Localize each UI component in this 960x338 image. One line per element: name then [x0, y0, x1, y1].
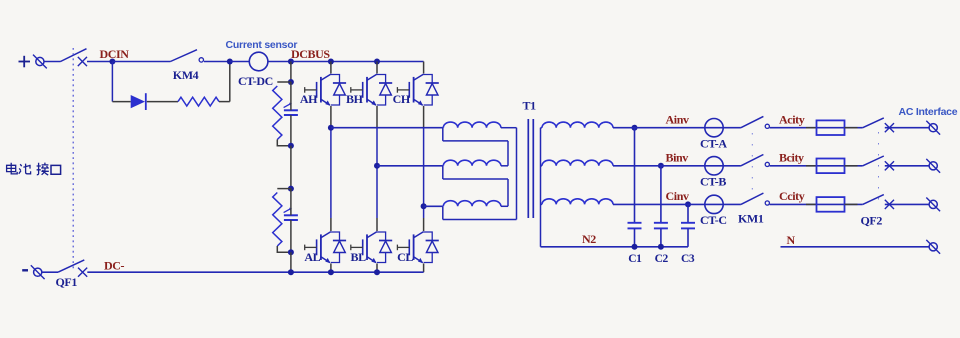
wire (primary link winding A to return3) — [516, 128, 518, 220]
wire — [330, 264, 332, 273]
wire — [290, 252, 292, 272]
node DCIN junction — [109, 59, 115, 65]
filter capacitor C1 — [628, 223, 642, 229]
wire (C3 lead) — [687, 204, 689, 222]
wire — [290, 82, 292, 110]
bus capacitor 2 — [284, 208, 298, 220]
wire — [423, 264, 425, 273]
svg-text:AH: AH — [300, 92, 318, 106]
svg-text:C3: C3 — [681, 253, 695, 265]
precharge branch wire (left drop) — [111, 62, 113, 102]
wire — [423, 106, 425, 128]
svg-text:AC Interface: AC Interface — [899, 106, 958, 118]
label 电池接口 (battery interface, hand-drawn glyphs) — [7, 163, 61, 175]
wire (phase C to primary) — [424, 205, 443, 207]
IGBT CL — [397, 232, 438, 264]
wire (phase B to primary) — [377, 165, 443, 167]
bus capacitor 1 — [284, 103, 298, 115]
contactor KM1 pole A fixed contact — [765, 124, 769, 128]
wire — [885, 127, 929, 129]
IGBT BH — [351, 74, 392, 106]
wire — [204, 61, 230, 63]
wire (C2 lead) — [660, 166, 662, 223]
wire — [277, 246, 291, 252]
svg-text:T1: T1 — [523, 99, 537, 113]
fuse FB — [817, 159, 845, 174]
svg-text:CT-DC: CT-DC — [238, 74, 273, 88]
svg-text:Current sensor: Current sensor — [226, 39, 298, 51]
QF2 contact X mark C — [885, 200, 894, 209]
contactor KM1 pole A blade — [741, 116, 764, 127]
wire — [268, 61, 291, 63]
wire — [277, 188, 291, 190]
wire (dark at fuse) — [806, 203, 817, 205]
current sensor CT-DC — [249, 52, 268, 71]
wire (DC- rail) — [87, 271, 423, 273]
wire (C1 lead) — [634, 128, 636, 223]
svg-text:C2: C2 — [655, 253, 669, 265]
wire (N2 line) — [541, 246, 689, 248]
svg-text:Ainv: Ainv — [666, 112, 689, 126]
svg-text:Binv: Binv — [666, 150, 689, 164]
transformer T1 secondary winding B — [541, 160, 614, 166]
wire (N line) — [781, 246, 929, 248]
svg-text:CL: CL — [397, 250, 413, 264]
node N2-C2 — [658, 244, 664, 250]
wire — [290, 115, 292, 146]
svg-text:CH: CH — [393, 92, 411, 106]
terminal DC- — [31, 265, 45, 279]
terminal A (AC interface) — [926, 121, 940, 135]
wire — [330, 62, 332, 74]
svg-text:Bcity: Bcity — [779, 150, 804, 164]
wire — [423, 62, 425, 74]
node phase output B — [374, 163, 380, 169]
filter capacitor C3 — [681, 223, 695, 229]
node DCBUS — [288, 59, 294, 65]
node N2-C1 — [632, 244, 638, 250]
wire (phase A to primary) — [331, 127, 443, 129]
node cap bank bottom — [288, 249, 294, 255]
wire (dark at fuse out) — [845, 165, 858, 167]
node cap bank top — [288, 79, 294, 85]
wire (secondary C to KM1) — [613, 203, 741, 205]
precharge diode — [131, 93, 146, 110]
svg-text:Ccity: Ccity — [779, 189, 805, 203]
wire — [230, 61, 250, 63]
svg-text:DCIN: DCIN — [100, 47, 130, 61]
wire — [112, 101, 130, 103]
contactor KM1 pole B fixed contact — [765, 162, 769, 166]
wire (dark at fuse) — [806, 165, 817, 167]
wire (dark at fuse) — [806, 127, 817, 129]
contactor KM1 pole C blade — [741, 193, 764, 204]
wire — [42, 271, 58, 273]
precharge resistor — [178, 97, 219, 106]
svg-text:Cinv: Cinv — [666, 189, 689, 203]
node AH collector on DC+ rail — [328, 59, 334, 65]
QF1 contact X mark (top) — [78, 57, 87, 66]
svg-text:QF1: QF1 — [56, 275, 78, 289]
wire — [376, 218, 378, 231]
wire — [290, 220, 292, 252]
node DC- at cap bank — [288, 269, 294, 275]
fuse FC — [817, 197, 845, 212]
wire — [277, 81, 291, 83]
wire — [634, 228, 636, 246]
battery positive terminal mark — [19, 56, 31, 68]
breaker QF2 pole C blade — [863, 195, 884, 205]
wire — [376, 62, 378, 74]
fuse FA — [817, 120, 845, 135]
terminal N (AC interface) — [926, 240, 940, 254]
transformer T1 primary winding B — [443, 160, 508, 179]
breaker QF1 pole 2 blade — [58, 260, 84, 272]
transformer T1 secondary winding C — [541, 199, 614, 205]
contactor KM1 pole B blade — [741, 155, 764, 166]
wire — [44, 61, 61, 63]
IGBT AH — [305, 74, 346, 106]
node cap bank mid1 — [288, 143, 294, 149]
node C2 tap — [658, 163, 664, 169]
wire — [770, 127, 863, 129]
wire — [770, 165, 863, 167]
svg-text:CT-C: CT-C — [700, 213, 727, 227]
svg-text:BH: BH — [346, 92, 364, 106]
IGBT AL — [305, 232, 346, 264]
wire (secondary star/neutral riser) — [540, 128, 542, 247]
svg-text:N2: N2 — [582, 232, 596, 246]
svg-text:BL: BL — [351, 250, 367, 264]
breaker QF2 pole B blade — [863, 156, 884, 166]
wire (dark at fuse out) — [845, 127, 858, 129]
wire — [687, 228, 689, 246]
node C1 tap — [632, 125, 638, 131]
svg-text:QF2: QF2 — [861, 213, 883, 227]
wire (dark at fuse out) — [845, 203, 858, 205]
battery negative terminal mark — [22, 269, 28, 271]
wire — [290, 146, 292, 189]
node phase output C — [421, 203, 427, 209]
current sensor CT-A — [705, 119, 723, 137]
wire — [290, 189, 292, 216]
svg-text:CT-A: CT-A — [700, 136, 727, 150]
wire — [112, 61, 170, 63]
terminal DC+ — [33, 55, 47, 69]
wire — [770, 203, 863, 205]
current sensor CT-C — [705, 195, 723, 213]
wire — [219, 101, 230, 103]
wire (secondary B to KM1) — [613, 165, 741, 167]
wire — [660, 228, 662, 246]
filter capacitor C2 — [654, 223, 668, 229]
svg-text:DCBUS: DCBUS — [291, 47, 330, 61]
current sensor CT-B — [705, 157, 723, 175]
wire — [87, 61, 112, 63]
node C3 tap — [685, 201, 691, 207]
wire — [147, 101, 178, 103]
wire (secondary A to KM1) — [613, 127, 741, 129]
svg-text:C1: C1 — [628, 253, 642, 265]
wire (primary link return1 to winding B) — [507, 141, 509, 166]
bleed resistor 2 — [273, 193, 282, 247]
wire — [423, 218, 425, 231]
wire (cap bank riser) — [290, 62, 292, 83]
transformer T1 primary winding C — [443, 201, 517, 220]
wire (leg mid) — [376, 128, 378, 218]
svg-text:KM4: KM4 — [173, 68, 199, 82]
QF1 contact X mark (bottom) — [78, 268, 87, 277]
contactor KM4 fixed contact — [199, 58, 203, 62]
terminal B (AC interface) — [926, 159, 940, 173]
wire (precharge return riser) — [229, 62, 231, 102]
wire — [885, 165, 929, 167]
node BH collector on DC+ rail — [374, 59, 380, 65]
transformer T1 secondary winding A — [541, 122, 614, 128]
breaker QF1 pole 1 blade — [61, 49, 87, 62]
breaker QF2 gang dashed linkage — [878, 132, 880, 200]
svg-text:DC-: DC- — [104, 258, 125, 272]
svg-text:CT-B: CT-B — [700, 174, 726, 188]
wire (leg mid) — [423, 128, 425, 218]
breaker QF2 pole A blade — [863, 118, 884, 128]
transformer T1 core — [528, 119, 533, 218]
svg-text:Acity: Acity — [779, 112, 805, 126]
contactor KM1 gang dashed linkage — [751, 133, 753, 199]
node phase output A — [328, 125, 334, 131]
QF2 contact X mark B — [885, 161, 894, 170]
wire — [277, 140, 291, 146]
transformer T1 primary winding A — [443, 122, 517, 141]
node DC- at leg B — [374, 269, 380, 275]
node precharge rejoin — [227, 59, 233, 65]
terminal C (AC interface) — [926, 198, 940, 212]
wire (primary link return2 to winding C) — [507, 179, 509, 206]
IGBT CH — [397, 74, 438, 106]
wire — [330, 218, 332, 231]
wire (leg mid) — [330, 128, 332, 218]
QF2 contact X mark A — [885, 123, 894, 132]
node DC- at leg A — [328, 269, 334, 275]
svg-text:AL: AL — [304, 250, 320, 264]
QF1 gang dashed linkage — [72, 48, 74, 269]
svg-text:N: N — [787, 233, 796, 247]
contactor KM4 blade — [170, 50, 197, 62]
wire (DC+ rail) — [291, 61, 424, 63]
IGBT BL — [351, 232, 392, 264]
svg-text:KM1: KM1 — [738, 211, 764, 225]
node cap bank mid2 — [288, 186, 294, 192]
contactor KM1 pole C fixed contact — [765, 201, 769, 205]
bleed resistor 1 — [273, 86, 282, 139]
wire — [376, 264, 378, 273]
wire — [330, 106, 332, 128]
wire — [885, 203, 929, 205]
wire — [376, 106, 378, 128]
